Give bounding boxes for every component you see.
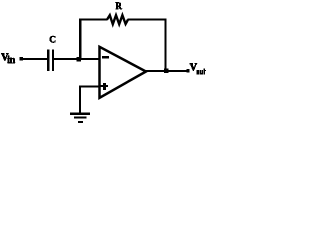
svg-text:C: C: [49, 36, 56, 46]
node feedback junction: [77, 57, 82, 62]
capacitor C plate right: [52, 49, 54, 71]
svg-text:R: R: [115, 1, 122, 11]
ground bar 3: [78, 121, 83, 123]
ground bar 1: [70, 113, 90, 115]
resistor R: [107, 15, 128, 24]
ground bar 2: [74, 117, 87, 119]
node Vin terminal: [20, 57, 23, 60]
wire to ground: [79, 86, 81, 114]
wire output: [145, 70, 188, 72]
wire non-inverting input: [79, 86, 100, 88]
wire feedback vertical left: [79, 19, 81, 60]
wire top rail right: [128, 19, 167, 21]
wire feedback vertical right: [164, 19, 166, 72]
svg-text:in: in: [7, 55, 15, 66]
wire top rail left: [79, 19, 108, 21]
wire Vin to C: [21, 58, 48, 60]
op-amp minus sign: [102, 56, 109, 59]
wire C to op-amp inverting input: [54, 58, 100, 60]
op-amp plus sign: [101, 85, 109, 87]
node output junction: [164, 69, 169, 74]
node Vout terminal: [186, 69, 189, 73]
capacitor C plate left: [47, 49, 49, 71]
svg-text:V: V: [190, 62, 198, 73]
op-amp U1: [100, 47, 147, 98]
